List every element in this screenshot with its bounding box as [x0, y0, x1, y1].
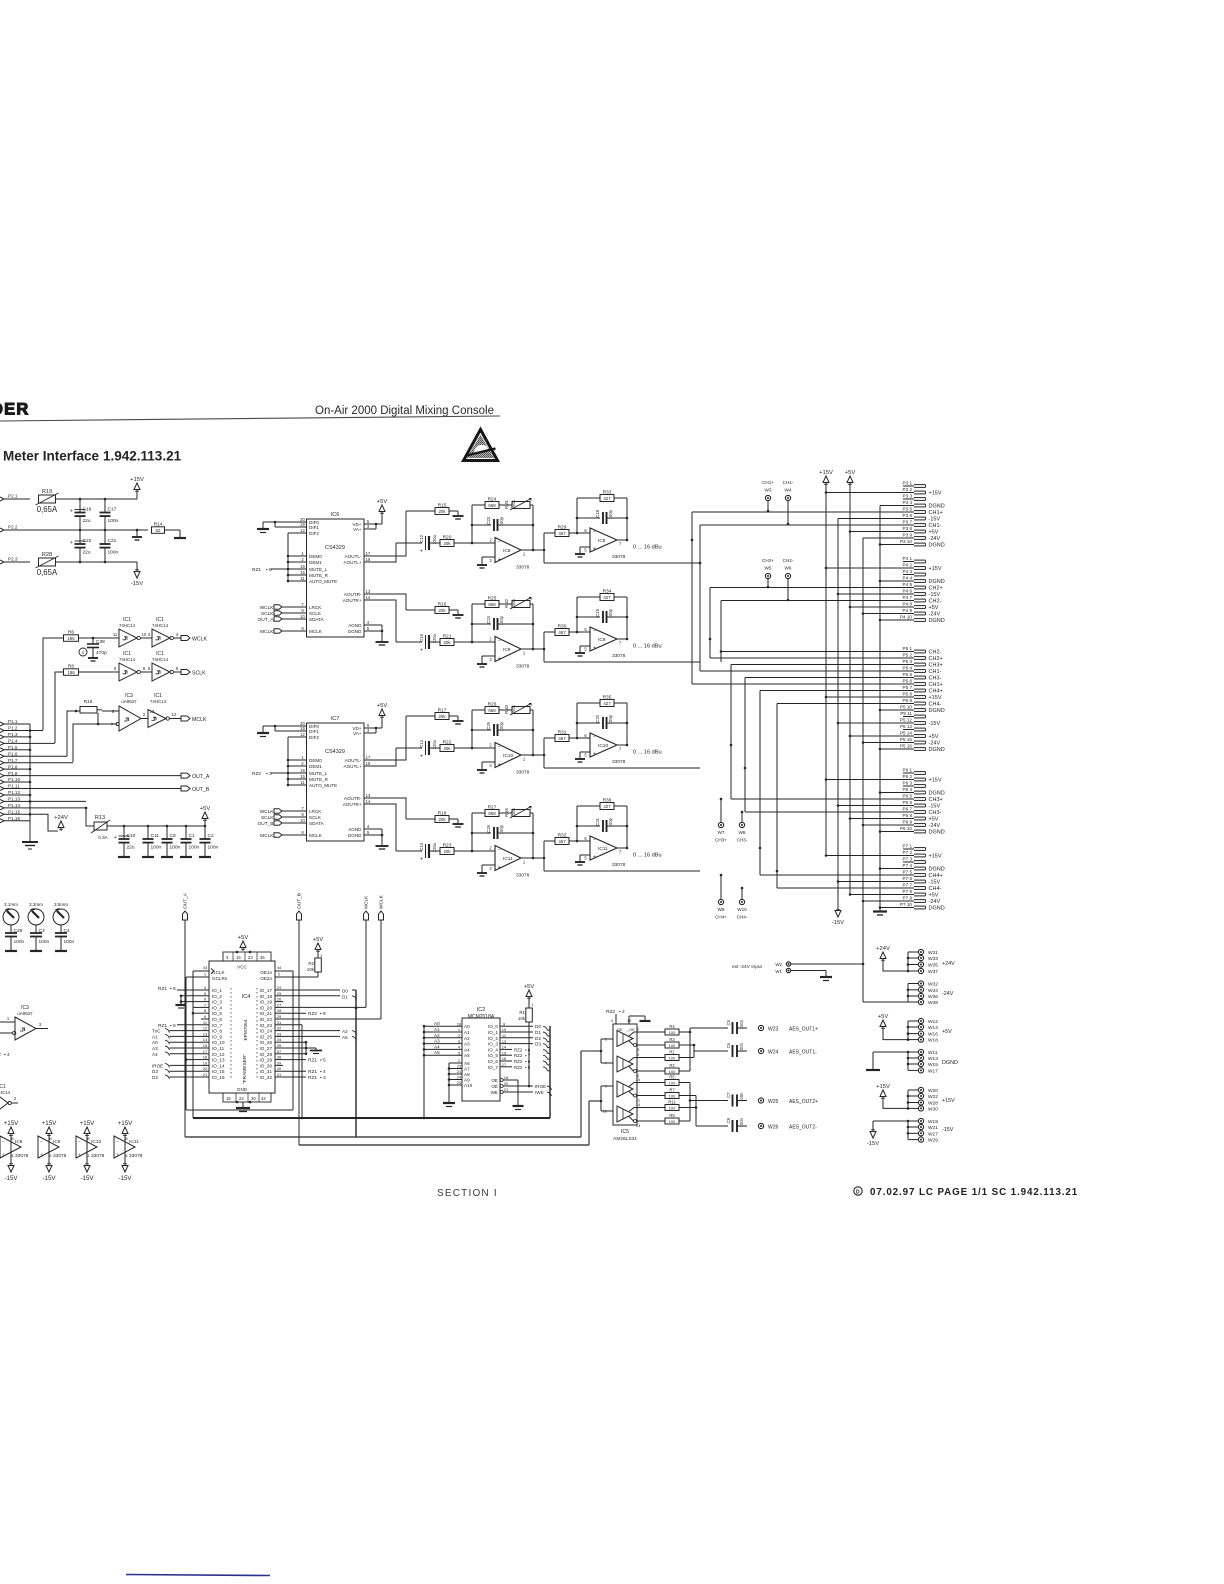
svg-text:1: 1	[301, 755, 304, 760]
test points W3 W4 CH1	[762, 480, 794, 525]
net flag MCLK vertical	[364, 895, 370, 1008]
svg-text:20k: 20k	[438, 817, 446, 822]
op-amp IC8 stage2 33078	[575, 498, 628, 560]
svg-text:R8: R8	[68, 664, 74, 670]
jacks W32 W34 W36 W38 -24V	[907, 981, 954, 1006]
svg-text:4: 4	[125, 1153, 128, 1158]
svg-text:DGND: DGND	[929, 543, 945, 549]
svg-text:A0: A0	[464, 1024, 470, 1029]
svg-text:-15V: -15V	[929, 721, 941, 727]
wire IO_25 A5	[283, 1035, 357, 1041]
svg-text:+15V: +15V	[942, 1098, 955, 1104]
svg-text:A6: A6	[464, 1061, 470, 1066]
svg-text:33078: 33078	[53, 1153, 67, 1159]
wire P1.15 to +24V	[30, 814, 58, 831]
svg-text:33078: 33078	[612, 653, 626, 659]
svg-text:−: −	[2, 1139, 5, 1144]
svg-text:A2: A2	[464, 1036, 470, 1041]
IC4 GND footer	[223, 1087, 271, 1102]
wire IO_5 tap	[192, 1012, 201, 1015]
svg-text:SDATA: SDATA	[309, 617, 325, 622]
svg-text:+: +	[498, 762, 501, 768]
svg-text:+: +	[116, 1152, 119, 1157]
svg-text:1: 1	[458, 1027, 461, 1032]
svg-text:IO_4: IO_4	[212, 1005, 222, 1010]
svg-text:467: 467	[558, 630, 566, 635]
svg-text:82: 82	[156, 528, 161, 533]
svg-text:+: +	[498, 656, 501, 662]
svg-text:20k: 20k	[438, 509, 446, 514]
connector P4	[900, 556, 945, 624]
svg-text:▪ 6: ▪ 6	[525, 1059, 531, 1064]
svg-text:R24: R24	[488, 496, 497, 502]
op-amp IC10 stage1 33078	[472, 743, 544, 776]
subtitle Meter Interface 1.942.113.21	[3, 449, 182, 464]
svg-text:16: 16	[300, 768, 305, 773]
svg-text:7: 7	[301, 806, 304, 811]
svg-text:6: 6	[143, 666, 146, 671]
DAC IC7 CS4329 box	[307, 716, 365, 841]
svg-text:1: 1	[523, 860, 526, 865]
svg-text:OE: OE	[491, 1084, 498, 1089]
svg-text:R7: R7	[669, 1088, 675, 1093]
power arrow -15V jacks	[867, 1121, 879, 1147]
op-amp IC8 stage1 33078	[472, 538, 544, 571]
svg-text:3.3mm: 3.3mm	[29, 902, 43, 907]
IC5 input pair AES2	[600, 1086, 610, 1111]
IC4 ground symbol	[236, 1101, 252, 1112]
power arrow +5V jacks	[878, 1014, 889, 1030]
svg-text:IC11: IC11	[598, 846, 608, 852]
svg-text:+: +	[2, 1152, 5, 1157]
resistor R23 20k	[440, 842, 473, 854]
svg-text:SCLK: SCLK	[192, 671, 206, 677]
svg-text:CH1+: CH1+	[929, 682, 943, 688]
svg-text:AES_OUT1+: AES_OUT1+	[789, 1027, 818, 1033]
svg-text:33078: 33078	[516, 873, 530, 879]
svg-text:DGND: DGND	[348, 833, 362, 838]
svg-text:IO_23: IO_23	[259, 1023, 272, 1028]
svg-text:+5V: +5V	[878, 1014, 889, 1020]
svg-text:74HC14: 74HC14	[119, 623, 136, 628]
svg-text:▪ 8: ▪ 8	[170, 1023, 176, 1029]
svg-text:P3 2: P3 2	[903, 487, 913, 492]
svg-text:+: +	[420, 754, 423, 760]
wire +15V rail to arrow	[79, 493, 137, 500]
svg-text:+15V: +15V	[130, 477, 144, 483]
wire IC7 AOUTR+ to C13	[372, 804, 396, 851]
svg-text:P1.10: P1.10	[8, 777, 20, 782]
svg-text:▪ 8: ▪ 8	[525, 1047, 531, 1052]
svg-text:C6: C6	[726, 1042, 731, 1048]
DGND rail and ground	[873, 506, 914, 916]
svg-text:+: +	[593, 547, 596, 553]
svg-text:P7 9: P7 9	[903, 896, 913, 901]
svg-text:22: 22	[239, 1096, 244, 1101]
svg-text:C13: C13	[419, 842, 424, 850]
svg-text:20: 20	[203, 1066, 208, 1071]
svg-text:C26: C26	[486, 824, 491, 832]
svg-text:4: 4	[204, 985, 207, 990]
svg-text:16: 16	[502, 1056, 507, 1061]
IC7 DIF ground tie	[257, 725, 299, 737]
svg-text:GCLRn: GCLRn	[212, 976, 228, 981]
wire P1.2 riser	[43, 638, 63, 730]
signal flag OUT_A	[181, 773, 210, 780]
svg-text:9: 9	[503, 1021, 506, 1026]
svg-text:C23: C23	[486, 516, 491, 524]
net CH2+ wiring	[709, 588, 914, 659]
IC7 left pin names	[299, 721, 338, 838]
svg-text:R31: R31	[558, 729, 567, 735]
IC4 left net labels	[152, 1029, 201, 1080]
svg-text:AOUTL+: AOUTL+	[344, 560, 362, 565]
svg-text:3: 3	[489, 657, 492, 662]
svg-text:15: 15	[203, 1043, 208, 1048]
ground symbol W11 group	[866, 1052, 880, 1070]
power arrow +15V	[130, 477, 144, 493]
svg-text:+24V: +24V	[876, 946, 890, 952]
svg-text:CH2-: CH2-	[783, 558, 794, 563]
op-amp IC10 stage2 33078	[575, 703, 628, 765]
svg-text:4: 4	[49, 1153, 52, 1158]
power arrow +5V IC4	[236, 935, 252, 953]
svg-text:20k: 20k	[443, 746, 451, 751]
svg-text:0 ... 16 dBu: 0 ... 16 dBu	[633, 644, 662, 650]
svg-text:P4 2: P4 2	[903, 563, 913, 568]
svg-text:C18: C18	[595, 509, 600, 517]
svg-text:P1.14: P1.14	[8, 803, 20, 808]
svg-text:CH1-: CH1-	[929, 669, 942, 675]
svg-text:P5 16: P5 16	[900, 744, 912, 749]
IC5 AM26LS31 box	[613, 1024, 637, 1142]
svg-text:DIF1: DIF1	[309, 729, 319, 734]
svg-text:27: 27	[277, 1002, 282, 1007]
svg-text:668: 668	[488, 708, 496, 713]
svg-text:4: 4	[367, 824, 370, 829]
svg-text:100n: 100n	[170, 845, 181, 851]
power arrow +5V at IC6	[377, 499, 388, 515]
svg-text:P1.5: P1.5	[8, 745, 18, 750]
svg-text:−: −	[498, 744, 501, 750]
svg-text:P5 3: P5 3	[903, 659, 913, 664]
svg-text:DGND: DGND	[929, 867, 945, 873]
jacks W11 W13 W15 W17 DGND	[873, 1049, 958, 1074]
svg-text:IC2: IC2	[477, 1007, 486, 1013]
resistor R20 20k	[440, 534, 473, 546]
svg-text:W25: W25	[768, 1099, 779, 1105]
header underline	[0, 416, 500, 421]
resistor R35 427 feedback	[577, 694, 627, 738]
svg-text:R9: R9	[669, 1113, 675, 1118]
resistor R2 10k pullup	[307, 953, 323, 972]
svg-text:8: 8	[204, 1008, 207, 1013]
svg-text:100n: 100n	[151, 845, 162, 851]
svg-text:+: +	[420, 648, 423, 654]
svg-text:▪ 9: ▪ 9	[320, 1011, 326, 1017]
svg-text:IO_19: IO_19	[259, 1000, 272, 1005]
svg-text:+15V: +15V	[929, 491, 942, 497]
svg-text:SDATA: SDATA	[309, 821, 325, 826]
svg-text:AOUTL-: AOUTL-	[345, 758, 362, 763]
svg-text:-15V: -15V	[80, 1175, 94, 1182]
resistor network tap RZ2.3	[252, 771, 288, 777]
svg-text:5: 5	[367, 626, 370, 631]
wire IC6 AOUTR+ to C15	[372, 600, 396, 642]
resistor R31 467	[544, 729, 590, 741]
circled 1 marker	[79, 648, 87, 656]
svg-text:−: −	[593, 629, 596, 635]
svg-text:W21: W21	[928, 1125, 938, 1131]
svg-text:MUTE_R: MUTE_R	[309, 777, 329, 782]
IC2 address pins A6-A10	[443, 1058, 473, 1106]
svg-text:12: 12	[203, 1026, 208, 1031]
resistor R18 20k to ground	[406, 810, 464, 827]
svg-text:196: 196	[67, 670, 75, 675]
svg-text:+: +	[498, 865, 501, 871]
capacitor C12 220u	[396, 534, 440, 554]
svg-text:P7 1: P7 1	[903, 844, 913, 849]
svg-text:17: 17	[502, 1062, 507, 1067]
svg-text:IO_29: IO_29	[259, 1058, 272, 1063]
svg-text:IO_10: IO_10	[212, 1040, 225, 1045]
resistor R29 467	[544, 524, 590, 536]
svg-text:C29: C29	[14, 928, 23, 934]
svg-text:A4: A4	[434, 1044, 440, 1049]
svg-text:W2: W2	[775, 962, 782, 967]
svg-text:R27: R27	[488, 804, 497, 810]
resistor R24 668 feedback	[472, 496, 512, 543]
resistor R33 427 feedback	[577, 489, 627, 533]
svg-text:P4 5: P4 5	[903, 582, 913, 587]
svg-text:IO_5: IO_5	[212, 1011, 222, 1016]
svg-text:35: 35	[277, 1043, 282, 1048]
-15V rail	[832, 519, 914, 927]
trimmer hole 3.1mm with capacitor C29	[3, 902, 25, 951]
svg-text:13: 13	[636, 1123, 641, 1128]
svg-text:C16: C16	[83, 507, 92, 513]
svg-text:11: 11	[113, 632, 118, 637]
svg-text:A8: A8	[464, 1072, 470, 1077]
svg-text:W38: W38	[928, 1000, 938, 1006]
resistor R14	[152, 522, 181, 538]
data bus vertical	[549, 1026, 551, 1118]
svg-text:▪ 3: ▪ 3	[266, 771, 272, 777]
svg-text:On-Air 2000 Digital Mixing Con: On-Air 2000 Digital Mixing Console	[315, 405, 494, 417]
svg-text:P7 3: P7 3	[903, 857, 913, 862]
svg-text:12: 12	[627, 1018, 632, 1023]
svg-text:20k: 20k	[438, 714, 446, 719]
svg-text:RM2: RM2	[504, 598, 509, 608]
label output level	[633, 750, 662, 756]
IC6 +5V supply wire	[372, 515, 382, 529]
wire IC6 AOUTL+ to C12	[372, 543, 396, 562]
svg-text:42: 42	[261, 1096, 266, 1101]
power arrow +5V at IC7	[377, 703, 388, 719]
svg-text:CS4329: CS4329	[325, 749, 345, 755]
svg-text:13: 13	[366, 793, 371, 798]
fuse R19 0,65A	[36, 489, 138, 514]
svg-text:IC6: IC6	[331, 512, 340, 518]
svg-text:DEM1: DEM1	[309, 560, 322, 565]
label RZ2.4 (clipped)	[0, 1052, 10, 1058]
svg-text:P6 9: P6 9	[903, 820, 913, 825]
svg-text:2: 2	[301, 761, 304, 766]
-24V rail	[862, 538, 914, 1002]
svg-text:5: 5	[584, 753, 587, 758]
svg-text:+15V: +15V	[929, 566, 942, 572]
wire IC6 AOUTR- to R16	[372, 594, 406, 610]
svg-text:22u: 22u	[83, 550, 91, 556]
IC2 address pins A0-A5	[423, 1021, 470, 1058]
capacitor C23 100p feedback	[471, 516, 535, 531]
svg-text:A1: A1	[152, 1034, 158, 1039]
wire -15V rail	[136, 562, 138, 568]
svg-text:W13: W13	[928, 1056, 938, 1062]
svg-text:▪ 2: ▪ 2	[619, 1009, 625, 1015]
svg-text:P4 6: P4 6	[903, 589, 913, 594]
svg-text:10k: 10k	[307, 967, 315, 972]
capacitor C5 100n	[726, 1019, 818, 1034]
capacitor C1 100n	[180, 826, 200, 857]
wire P1.7 riser	[73, 724, 80, 762]
svg-text:R4: R4	[669, 1024, 675, 1029]
svg-text:CH3-: CH3-	[929, 810, 942, 816]
test points W5 W6 CH2	[762, 558, 794, 601]
jacks W31 W33 W35 W37 +24V	[883, 949, 955, 975]
svg-text:IO_16: IO_16	[212, 1075, 225, 1080]
ground at P2.2 node	[132, 530, 142, 540]
svg-text:R6: R6	[68, 630, 74, 636]
inverter IC1b 74HC14	[148, 617, 181, 647]
capacitor C25 100p feedback	[471, 721, 535, 736]
svg-text:1: 1	[523, 651, 526, 656]
svg-text:P5 9: P5 9	[903, 698, 913, 703]
svg-text:A5: A5	[342, 1035, 348, 1040]
svg-text:R26: R26	[488, 701, 497, 707]
svg-text:SECTION I: SECTION I	[437, 1188, 498, 1199]
svg-text:5: 5	[584, 856, 587, 861]
svg-text:IROE: IROE	[535, 1084, 546, 1089]
svg-text:AGND: AGND	[348, 623, 362, 628]
svg-text:1: 1	[531, 1002, 534, 1007]
svg-text:TxC: TxC	[152, 1029, 161, 1034]
svg-text:AUTO_MUTE: AUTO_MUTE	[309, 579, 337, 584]
svg-text:P7 7: P7 7	[903, 883, 913, 888]
svg-text:P2.1: P2.1	[8, 494, 18, 499]
svg-text:33078: 33078	[516, 565, 530, 571]
svg-text:P1.9: P1.9	[8, 771, 18, 776]
svg-text:W33: W33	[928, 956, 938, 962]
thick vertical bus	[355, 990, 358, 1137]
svg-text:IO_11: IO_11	[212, 1046, 225, 1051]
svg-text:6: 6	[204, 997, 207, 1002]
power arrow +5V caps	[200, 806, 211, 826]
svg-text:P6 8: P6 8	[903, 813, 913, 818]
wire P1.4 to riser	[30, 742, 55, 744]
svg-text:RZ2: RZ2	[514, 1059, 523, 1064]
svg-text:7: 7	[619, 641, 622, 646]
wire IO_13 to loop	[185, 1058, 201, 1061]
resistor R15 20k to ground	[406, 502, 464, 519]
svg-text:MUTE_L: MUTE_L	[309, 567, 328, 572]
svg-text:100: 100	[669, 1043, 676, 1048]
svg-text:▪ 4: ▪ 4	[320, 1069, 326, 1075]
svg-text:W26: W26	[768, 1125, 779, 1131]
ext -24V input jacks W2 W1	[732, 962, 791, 974]
svg-text:15: 15	[300, 570, 305, 575]
svg-text:IO_3: IO_3	[212, 1000, 222, 1005]
svg-text:DGND: DGND	[929, 504, 945, 510]
svg-text:R32: R32	[558, 832, 567, 838]
svg-text:A2: A2	[342, 1029, 348, 1034]
capacitor C2 100n	[199, 826, 219, 857]
svg-text:+5V: +5V	[377, 703, 388, 709]
svg-text:DGND: DGND	[929, 708, 945, 714]
svg-text:P4 3: P4 3	[903, 569, 913, 574]
svg-text:2: 2	[637, 1027, 640, 1032]
svg-text:DGND: DGND	[929, 618, 945, 624]
svg-text:+: +	[593, 855, 596, 861]
svg-text:P1.2: P1.2	[8, 726, 18, 731]
AES1- join R3 R1	[686, 1044, 728, 1058]
svg-text:A4: A4	[152, 1052, 158, 1057]
capacitor C8 100n	[161, 826, 181, 857]
svg-text:32: 32	[277, 1026, 282, 1031]
svg-text:74HC14: 74HC14	[119, 657, 136, 662]
svg-text:AOUTR+: AOUTR+	[343, 802, 362, 807]
svg-text:13: 13	[203, 1031, 208, 1036]
svg-text:IO_6: IO_6	[212, 1017, 222, 1022]
svg-text:+: +	[114, 835, 117, 841]
svg-text:4: 4	[367, 620, 370, 625]
label RZ1.6 to IO_1	[158, 986, 201, 992]
svg-text:R18: R18	[438, 810, 447, 816]
svg-text:100: 100	[669, 1093, 676, 1098]
svg-text:WCLK: WCLK	[260, 809, 275, 815]
svg-text:A3: A3	[464, 1042, 470, 1047]
svg-text:ext -24V Input: ext -24V Input	[732, 964, 763, 970]
svg-text:C10: C10	[127, 833, 136, 839]
svg-text:WE: WE	[491, 1090, 498, 1095]
footer revision line	[854, 1187, 1078, 1198]
svg-text:W36: W36	[928, 994, 938, 1000]
capacitor C18 100p stage2	[576, 509, 629, 524]
svg-text:-15V: -15V	[929, 592, 941, 598]
svg-text:427: 427	[603, 496, 611, 501]
svg-text:14: 14	[636, 1102, 641, 1107]
jacks W19 W21 W27 W29 -15V	[873, 1118, 954, 1143]
line receiver IC3 uA9637 (lower)	[0, 1005, 48, 1040]
svg-text:RZ2: RZ2	[252, 771, 261, 777]
wire IC7 AOUTL+ to C14	[372, 748, 396, 766]
connector P5	[900, 646, 945, 753]
svg-text:P5 7: P5 7	[903, 685, 913, 690]
svg-text:P7 10: P7 10	[900, 902, 912, 907]
svg-text:21: 21	[203, 1072, 208, 1077]
svg-text:P3 10: P3 10	[900, 539, 912, 544]
svg-text:DEM0: DEM0	[309, 758, 322, 763]
svg-text:OE1n: OE1n	[260, 970, 272, 975]
svg-text:R1: R1	[669, 1050, 675, 1055]
bus line OUT_B to AES2	[299, 1101, 601, 1145]
svg-text:IO_3: IO_3	[488, 1042, 498, 1047]
svg-text:-15V: -15V	[4, 1175, 18, 1182]
svg-text:+15V: +15V	[819, 470, 833, 476]
svg-text:IC7: IC7	[331, 716, 340, 722]
svg-text:3: 3	[39, 1022, 42, 1027]
trimmer hole 3.3mm with capacitor C3	[28, 902, 50, 951]
